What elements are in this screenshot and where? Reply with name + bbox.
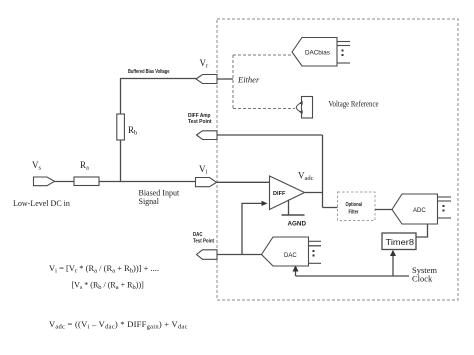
DAC bias block bbox=[292, 38, 350, 67]
svg-text:DACbias: DACbias bbox=[305, 50, 330, 57]
svg-text:Either: Either bbox=[237, 75, 260, 85]
svg-text:Buffered Bias Voltage: Buffered Bias Voltage bbox=[128, 69, 170, 75]
voltage reference block U-ref bbox=[296, 97, 312, 119]
wire Vadc vertical bbox=[322, 135, 324, 208]
svg-text:Low-Level DC in: Low-Level DC in bbox=[13, 199, 70, 208]
wire Vr into box bbox=[217, 78, 233, 80]
resistor Rb bbox=[117, 114, 125, 140]
svg-text:Vi: Vi bbox=[199, 164, 208, 176]
wire DAC feedback to DIFF inverting input bbox=[242, 203, 262, 254]
connector Vi bbox=[196, 178, 217, 187]
svg-text:ADC: ADC bbox=[413, 208, 426, 214]
svg-text:Optional: Optional bbox=[346, 202, 363, 208]
wire DAC output to test point bbox=[217, 254, 262, 256]
timer block Timer8 bbox=[382, 233, 416, 250]
wire Rb top to Vr connector bbox=[120, 78, 197, 80]
wire Either vertical dashed bbox=[232, 55, 234, 109]
wire Ra to Vi connector bbox=[98, 181, 196, 183]
svg-text:Signal: Signal bbox=[139, 197, 160, 206]
wire Vi to DIFF bbox=[217, 181, 271, 183]
wire clock to Timer8 with arrow bbox=[392, 252, 394, 276]
wire Either bottom dashed to voltage reference bbox=[233, 108, 295, 110]
svg-text:Vadc = ((Vi – Vdac) * DIFFgain: Vadc = ((Vi – Vdac) * DIFFgain) + Vdac bbox=[49, 319, 188, 331]
connector DAC Test Point bbox=[197, 250, 218, 259]
svg-text:Voltage Reference: Voltage Reference bbox=[329, 100, 379, 109]
wire DIFF output to Vadc node bbox=[305, 192, 323, 194]
wire Vs to Ra bbox=[52, 181, 75, 183]
svg-text:Test Point: Test Point bbox=[188, 119, 212, 125]
svg-text:Rb: Rb bbox=[128, 125, 137, 137]
resistor Ra bbox=[74, 177, 99, 186]
svg-text:Timer8: Timer8 bbox=[386, 238, 415, 247]
svg-text:DAC: DAC bbox=[193, 232, 203, 238]
wire system clock bbox=[296, 275, 410, 277]
DAC block bbox=[262, 237, 322, 266]
filter block Optional Filter bbox=[338, 192, 376, 221]
wire filter to ADC bbox=[375, 209, 393, 211]
wire clock to DAC with arrow bbox=[295, 267, 297, 276]
svg-text:Vr: Vr bbox=[200, 58, 210, 70]
svg-text:AGND: AGND bbox=[288, 221, 307, 228]
svg-text:Ra: Ra bbox=[80, 160, 89, 172]
connector DIFF Amp Test Point bbox=[197, 131, 218, 140]
svg-text:DAC: DAC bbox=[284, 253, 297, 259]
svg-text:Vs: Vs bbox=[32, 160, 42, 172]
wire Either top dashed to DACbias bbox=[233, 54, 291, 56]
chip boundary dashed box bbox=[217, 19, 458, 300]
arrow into DIFF inverting input bbox=[262, 201, 268, 206]
svg-text:DIFF: DIFF bbox=[273, 191, 286, 197]
wire test point to Vadc node bbox=[217, 134, 323, 136]
ADC block bbox=[392, 194, 451, 224]
op-amp DIFF bbox=[270, 176, 305, 210]
svg-text:Clock: Clock bbox=[412, 274, 433, 284]
svg-text:Vadc: Vadc bbox=[298, 171, 314, 183]
wire Vadc to filter bbox=[323, 207, 338, 209]
wire ADC to Timer8 bbox=[416, 224, 428, 237]
ground AGND bbox=[282, 200, 307, 228]
svg-text:Vi = [Vr * (Ra / (Ra + Rb))] +: Vi = [Vr * (Ra / (Ra + Rb))] + .... bbox=[49, 263, 159, 275]
svg-text:[Vs * (Rb / (Ra + Rb))]: [Vs * (Rb / (Ra + Rb))] bbox=[72, 281, 145, 292]
svg-text:Filter: Filter bbox=[349, 210, 360, 216]
connector Vr bbox=[196, 75, 217, 84]
connector Vs bbox=[34, 177, 55, 186]
svg-text:Test Point: Test Point bbox=[193, 239, 214, 245]
wire bias vertical (Rb branch) bbox=[120, 79, 122, 182]
